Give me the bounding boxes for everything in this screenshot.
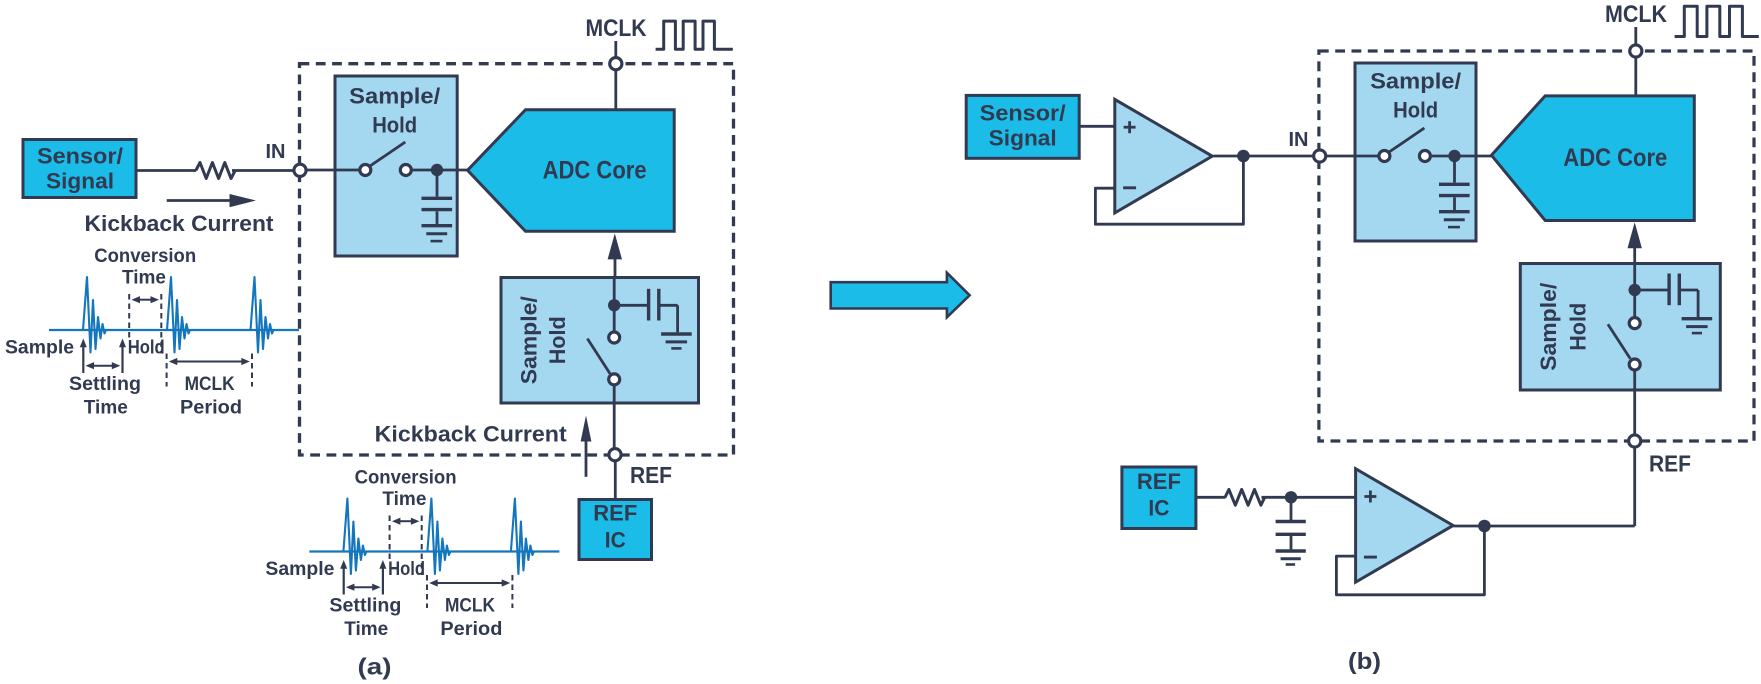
svg-text:Time: Time <box>122 268 166 289</box>
svg-text:Hold: Hold <box>388 559 425 580</box>
svg-text:Sensor/: Sensor/ <box>980 101 1066 126</box>
svg-text:MCLK: MCLK <box>185 374 235 395</box>
svg-text:(a): (a) <box>358 654 392 680</box>
svg-text:Conversion: Conversion <box>355 468 457 489</box>
svg-text:Sample: Sample <box>5 338 74 359</box>
svg-text:Period: Period <box>440 619 502 640</box>
svg-text:MCLK: MCLK <box>445 596 495 617</box>
svg-text:REF: REF <box>1649 451 1691 477</box>
svg-text:Kickback Current: Kickback Current <box>85 211 275 236</box>
svg-text:Hold: Hold <box>1565 303 1590 351</box>
svg-text:IC: IC <box>1148 496 1169 521</box>
svg-text:MCLK: MCLK <box>586 15 648 42</box>
svg-text:Sample/: Sample/ <box>349 84 440 109</box>
svg-text:Hold: Hold <box>372 113 417 138</box>
svg-text:Sample/: Sample/ <box>1536 283 1561 371</box>
svg-text:Signal: Signal <box>46 169 114 194</box>
svg-text:Sample: Sample <box>265 559 334 580</box>
svg-text:Period: Period <box>180 398 242 419</box>
svg-text:MCLK: MCLK <box>1605 1 1668 28</box>
svg-text:(b): (b) <box>1348 648 1381 674</box>
svg-text:Sample/: Sample/ <box>1370 69 1461 94</box>
svg-text:Kickback Current: Kickback Current <box>375 422 568 447</box>
svg-text:Settling: Settling <box>329 596 401 617</box>
svg-text:Sensor/: Sensor/ <box>37 144 123 169</box>
svg-text:ADC Core: ADC Core <box>1563 144 1667 172</box>
svg-text:REF: REF <box>630 462 672 488</box>
svg-text:Settling: Settling <box>69 374 141 395</box>
svg-text:IC: IC <box>605 528 626 553</box>
svg-text:Signal: Signal <box>989 126 1057 151</box>
svg-text:REF: REF <box>593 501 637 526</box>
svg-text:Time: Time <box>382 489 426 510</box>
svg-text:Hold: Hold <box>1393 98 1438 123</box>
svg-text:REF: REF <box>1137 469 1181 494</box>
svg-text:Time: Time <box>344 619 388 640</box>
svg-text:ADC Core: ADC Core <box>543 156 647 184</box>
svg-text:Sample/: Sample/ <box>517 296 542 384</box>
svg-text:Conversion: Conversion <box>94 246 196 267</box>
svg-text:IN: IN <box>1289 129 1309 151</box>
svg-text:Hold: Hold <box>128 338 165 359</box>
svg-text:IN: IN <box>266 141 286 163</box>
svg-text:Time: Time <box>84 398 128 419</box>
svg-text:Hold: Hold <box>545 316 570 364</box>
